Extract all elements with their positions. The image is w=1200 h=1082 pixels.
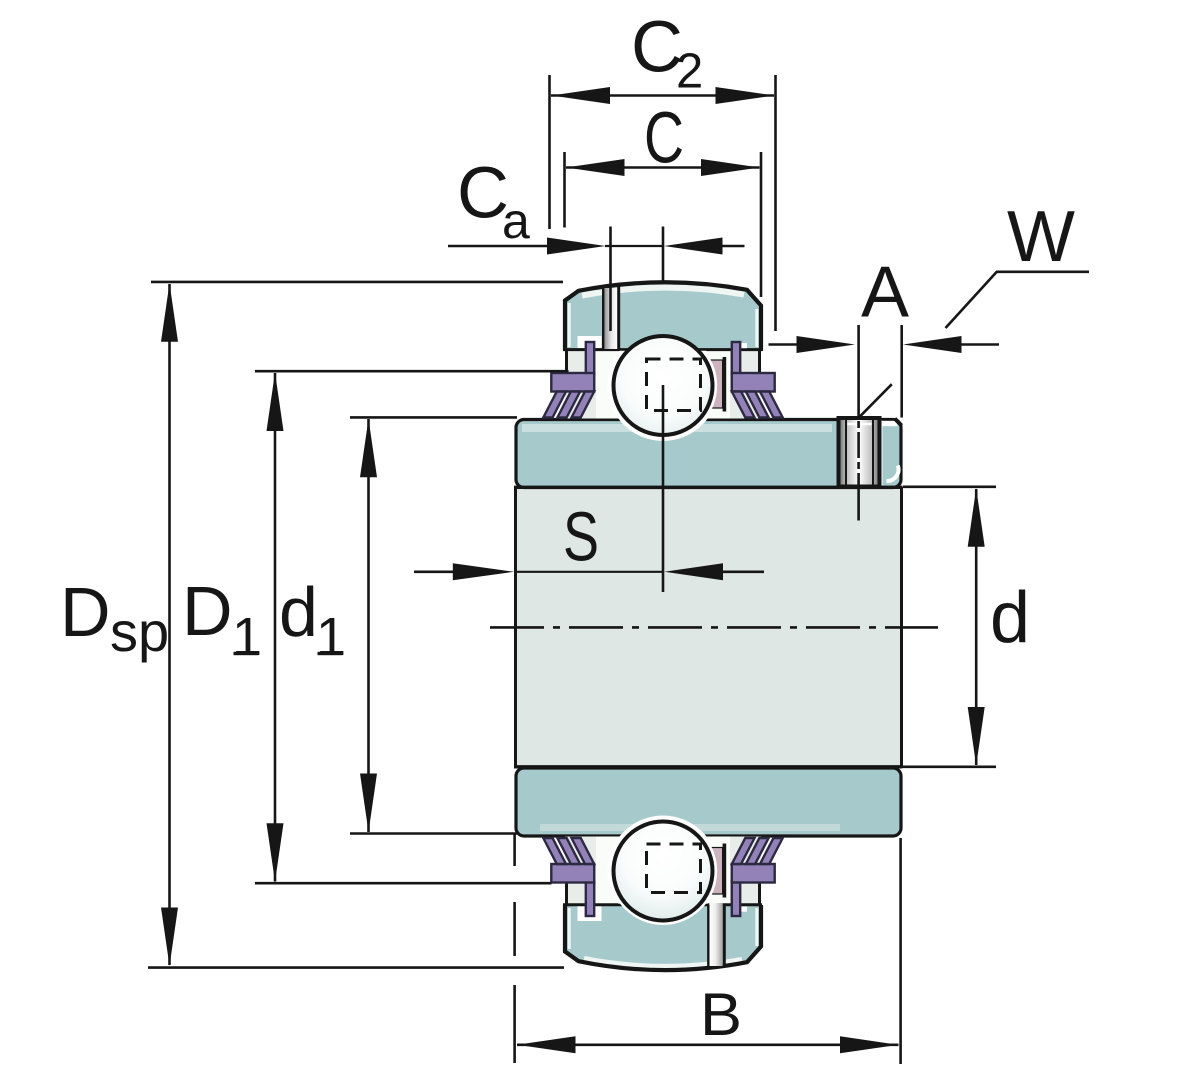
collar top highlight: [522, 424, 832, 432]
svg-text:1: 1: [316, 607, 346, 667]
bottom left seal fingers: [543, 838, 594, 864]
S dim shaft right: [722, 570, 764, 573]
svg-text:d: d: [990, 578, 1030, 658]
inner ring collar band top: [516, 420, 901, 488]
svg-text:1: 1: [232, 607, 262, 667]
dimension C line: [566, 166, 760, 169]
C2 arrow left: [552, 87, 611, 104]
collar corner white sliver: [887, 466, 899, 482]
B dimension line: [517, 1044, 899, 1047]
dimension Ca shaft right: [722, 245, 745, 248]
svg-text:a: a: [502, 193, 530, 249]
top raceway band: [565, 351, 761, 419]
pin inner line right: [872, 420, 874, 485]
Dsp extension bottom: [148, 966, 564, 969]
d extension bottom: [903, 765, 996, 768]
dimension C2 line: [551, 94, 774, 97]
bottom dashed square: [647, 844, 701, 893]
B arrow left: [517, 1036, 576, 1053]
d arrow up: [968, 488, 985, 547]
bottom right seal stem: [732, 882, 740, 917]
dimension C extension left: [563, 152, 566, 228]
bottom outer ring inner highlight: [584, 959, 742, 967]
svg-text:d: d: [279, 573, 318, 651]
C arrow left: [566, 159, 625, 176]
top ring bottom line: [563, 348, 762, 351]
slot left border: [602, 287, 604, 349]
bottom raceway white center: [596, 837, 730, 905]
top left seal fingers: [543, 392, 594, 418]
Ca extension line at ball center: [662, 227, 665, 283]
pin leader diagonal: [859, 384, 892, 418]
top ball centerline: [662, 385, 665, 592]
bottom left stem groove: [578, 906, 602, 921]
d1 dimension line: [367, 419, 370, 832]
dimension Ca shaft left: [448, 245, 547, 248]
W leader horizontal: [996, 270, 1089, 273]
Dsp arrow down: [161, 908, 178, 967]
bottom right seal fingers: [732, 838, 783, 864]
bottom ring inner face slivers: [568, 908, 571, 949]
d1 arrow down: [360, 774, 377, 833]
bottom band boundary right: [758, 881, 761, 906]
d1 extension bottom: [350, 832, 517, 835]
svg-text:sp: sp: [110, 600, 169, 663]
shaft bottom edge: [514, 765, 903, 768]
collar top-right chamfer: [895, 419, 902, 426]
D1 arrow down: [267, 823, 284, 882]
S line between: [514, 571, 663, 573]
bottom right seal body: [732, 864, 775, 883]
bottom lube slot: [709, 903, 723, 966]
svg-text:A: A: [861, 253, 909, 333]
top raceway white center: [596, 351, 730, 419]
bottom slot right border: [723, 905, 726, 966]
svg-text:D: D: [182, 572, 233, 650]
d1 extension top: [350, 416, 517, 419]
d extension top: [903, 485, 996, 488]
top ball halo: [608, 330, 719, 441]
D1 extension top: [255, 370, 569, 373]
set pin body: [839, 418, 880, 487]
top right stem groove: [740, 343, 748, 348]
top dashed square: [647, 359, 701, 411]
collar white band above teal block: [879, 421, 898, 426]
top ball: [614, 336, 713, 435]
bottom slot left border: [707, 905, 709, 966]
W leader diagonal: [946, 272, 998, 329]
top band boundary right: [758, 349, 761, 374]
S arrow right: [664, 563, 723, 580]
B extension left segments: [513, 834, 516, 1063]
A extension right: [900, 325, 903, 418]
bottom ring top line: [563, 903, 762, 906]
shaft left edge: [514, 487, 517, 768]
Ca line between: [605, 245, 664, 247]
dimension C2 extension right: [774, 75, 777, 331]
top left seal body: [551, 373, 594, 392]
horizontal centerline: [490, 626, 938, 629]
C arrow right: [701, 159, 760, 176]
bottom pink right bar: [723, 844, 727, 898]
W arrow left: [797, 336, 856, 353]
Ca arrow right: [664, 238, 723, 255]
bottom right stem groove: [740, 907, 748, 912]
D1 dimension line: [274, 373, 277, 882]
top outer ring inner highlight: [582, 288, 744, 296]
top ring inner face slivers: [568, 303, 571, 347]
B arrow right: [840, 1036, 899, 1053]
top outer ring outline: [565, 282, 761, 351]
bottom ball halo over pink: [609, 817, 717, 925]
Dsp extension top: [151, 281, 563, 284]
pin top inner white: [848, 423, 872, 426]
svg-text:D: D: [60, 573, 111, 651]
pin inner line left: [845, 420, 847, 485]
top left seal stem: [586, 342, 594, 374]
d arrow down: [968, 707, 985, 766]
bottom ball: [614, 822, 713, 921]
dimension C2 extension left: [548, 75, 551, 229]
A extension left / pin centerline upper: [857, 325, 860, 418]
bottom outer ring fill: [565, 905, 761, 970]
top band boundary left: [565, 349, 568, 374]
Dsp arrow up: [161, 283, 178, 342]
W dim shaft left: [769, 343, 798, 346]
bottom ball halo: [608, 816, 719, 927]
top outer ring fill: [565, 282, 761, 351]
shaft top edge: [514, 486, 903, 489]
W dim shaft right: [961, 343, 999, 346]
shaft right edge: [900, 487, 903, 768]
slot right border: [617, 287, 620, 350]
top left stem groove: [578, 336, 602, 348]
top ball halo over pink: [609, 331, 717, 439]
pin centerline lower: [857, 488, 860, 521]
S dim shaft left: [414, 570, 453, 573]
top pink cage: [709, 360, 723, 408]
D1 extension bottom: [255, 882, 552, 885]
C2 arrow right: [716, 87, 775, 104]
B extension right: [899, 838, 902, 1064]
svg-text:W: W: [1007, 197, 1075, 277]
bottom left seal stem: [586, 882, 594, 917]
svg-text:S: S: [563, 498, 599, 576]
Ca arrow left: [547, 238, 606, 255]
Ca extension line inside slot: [609, 227, 612, 332]
inner ring collar band bottom: [516, 768, 901, 836]
bottom pink cage: [709, 848, 723, 895]
top pink right bar: [723, 357, 727, 412]
svg-text:C: C: [644, 99, 684, 179]
collar bottom highlight: [540, 824, 840, 831]
dimension C extension right: [760, 152, 763, 297]
svg-text:2: 2: [676, 45, 703, 99]
shaft body: [516, 487, 902, 768]
top right seal stem: [732, 342, 740, 374]
W arrow right: [903, 336, 962, 353]
bottom left seal body: [551, 864, 594, 883]
top lube slot: [604, 288, 618, 349]
pin dash-dot centerline: [857, 421, 860, 486]
top right seal body: [732, 373, 775, 392]
d1 arrow up: [360, 419, 377, 478]
svg-text:B: B: [700, 981, 742, 1048]
set pin recess white strip: [879, 421, 883, 486]
top right seal fingers: [732, 392, 783, 418]
bottom raceway band: [565, 837, 761, 905]
S arrow left: [453, 563, 514, 580]
d dimension line: [975, 489, 978, 765]
D1 arrow up: [267, 373, 284, 432]
Dsp dimension line: [168, 284, 171, 965]
bottom outer ring outline: [565, 905, 761, 970]
bottom band boundary left: [565, 881, 568, 906]
